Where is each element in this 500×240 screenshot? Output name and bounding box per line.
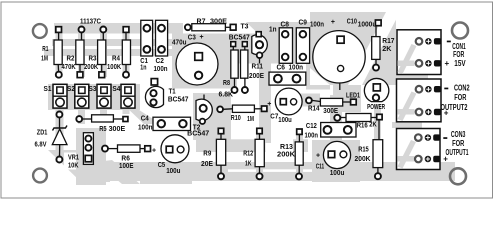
pad C7 plus (square) [280, 99, 286, 105]
terminal CON2 row1 [434, 86, 441, 92]
svg-text:100n: 100n [154, 66, 168, 73]
wire diag near C5 [96, 160, 140, 184]
svg-text:T3: T3 [241, 24, 249, 31]
pad C10 minus [338, 65, 344, 71]
white wedge left of C10 [310, 68, 330, 85]
wire zone left of C7 [259, 63, 271, 143]
pad R14 left [306, 98, 312, 104]
wire band R9-R12 [196, 139, 266, 152]
svg-text:S2: S2 [67, 86, 75, 93]
terminal CON1 row1 [434, 38, 441, 44]
capacitor C5 [161, 135, 189, 163]
svg-text:C8: C8 [281, 21, 290, 28]
svg-text:15V: 15V [454, 59, 466, 68]
resistor R13 [295, 134, 303, 173]
wire strip R1 column [56, 33, 63, 77]
wire strip below S1 [56, 108, 64, 162]
pad POWER anode (square) [373, 84, 380, 91]
white diagonal over C10 zone [348, 12, 400, 85]
resistor R8 [231, 47, 238, 88]
pad R16 right (square) [377, 114, 382, 119]
zener ZD1 [52, 117, 67, 157]
svg-text:C12: C12 [306, 123, 317, 130]
resistor R7 [191, 24, 231, 31]
resistor R15 [373, 120, 383, 174]
switch S4 [121, 84, 135, 108]
pad T3 pin2 [257, 52, 263, 58]
pad R6 right (square) [145, 146, 151, 152]
svg-text:100u: 100u [166, 168, 180, 175]
pad R3 bottom (square) [99, 72, 105, 78]
pad R17 bottom [373, 65, 379, 71]
label CON1 [447, 41, 451, 43]
pad ZD1 bottom [56, 157, 62, 163]
resistor R3 [98, 32, 106, 72]
terminal CON3 row2 [433, 156, 440, 162]
pad T3 top (square) [256, 32, 261, 37]
pad R11 bottom [242, 87, 248, 93]
pad R3 top [100, 27, 106, 33]
capacitor C8 [279, 28, 292, 64]
pad R8 top (square) [231, 42, 236, 47]
svg-text:+: + [152, 147, 156, 154]
wire zone C8 C9 T3 [237, 34, 330, 64]
pad C5 minus [177, 146, 184, 153]
pad C12 left [324, 126, 332, 134]
pad C6 right [293, 75, 301, 83]
connector CON2 box [397, 79, 442, 122]
wire strip R9 [218, 130, 225, 178]
capacitor C2 [156, 20, 168, 56]
pad CON1 row1 [416, 38, 423, 45]
wire zone below C5 [140, 163, 192, 184]
wire strip R2 column [78, 33, 85, 77]
capacitor C9 [296, 28, 309, 64]
wire gap above CON3 [392, 122, 422, 128]
svg-text:200K: 200K [84, 64, 98, 71]
pad CON1 row2 [416, 60, 423, 67]
capacitor C12 [321, 123, 356, 138]
resistor R4 [122, 32, 130, 72]
svg-text:+: + [200, 34, 204, 41]
wire zone T2 [193, 93, 231, 140]
svg-text:100n: 100n [310, 22, 324, 29]
pad R1 top (square) [56, 27, 62, 33]
capacitor C3 [176, 43, 218, 85]
switch S1 [53, 84, 67, 108]
wire strip R13 [296, 132, 303, 178]
svg-text:R12: R12 [243, 151, 253, 158]
svg-text:POWER: POWER [367, 104, 385, 111]
resistor R11 [241, 47, 248, 88]
pad R13 top (square) [297, 129, 302, 134]
mounting hole top-left [33, 24, 47, 38]
wire strip below S4 [123, 108, 130, 114]
svg-text:R11: R11 [252, 64, 264, 71]
pad R15 bottom [375, 173, 381, 179]
svg-text:200E: 200E [249, 73, 264, 80]
svg-text:6.8V: 6.8V [35, 142, 47, 149]
resistor R10 [223, 105, 262, 112]
svg-text:100K: 100K [107, 64, 121, 71]
svg-text:T1: T1 [169, 89, 176, 96]
svg-text:100n: 100n [289, 65, 304, 72]
svg-text:BC547: BC547 [229, 35, 250, 42]
mounting hole bottom-right [450, 168, 466, 184]
pad R13 bottom [296, 173, 302, 179]
svg-text:S1: S1 [44, 86, 52, 93]
screw CON3 row2 [425, 156, 431, 162]
capacitor C4 [153, 117, 191, 130]
resistor R16 [341, 114, 377, 122]
pad R5 left [76, 116, 82, 122]
preset VR1 [83, 133, 93, 165]
wire diagonal bottom-left [48, 150, 110, 182]
svg-text:+: + [443, 155, 448, 164]
svg-text:R13: R13 [280, 144, 293, 151]
screw CON2 row2 [425, 109, 431, 115]
transistor T1 [145, 86, 163, 107]
wire zone LED POWER [333, 82, 361, 112]
svg-text:C6: C6 [277, 65, 286, 72]
mounting hole top-right [452, 23, 468, 39]
svg-text:FOR: FOR [454, 93, 466, 102]
svg-text:R3: R3 [89, 56, 97, 63]
wire to R14 [300, 94, 320, 107]
capacitor C1 [141, 20, 153, 56]
svg-text:R17: R17 [382, 38, 394, 45]
transistor T3 [252, 35, 268, 64]
svg-text:FOR: FOR [452, 139, 464, 148]
resistor R9 [216, 134, 225, 174]
svg-text:1K: 1K [245, 160, 252, 167]
pad R9 top (square) [218, 128, 223, 133]
pad VR1 pin2 [85, 145, 91, 151]
svg-text:R2: R2 [67, 56, 75, 63]
svg-text:C9: C9 [299, 20, 308, 27]
svg-text:R7: R7 [197, 18, 206, 25]
pad R6 left [102, 146, 108, 152]
pad C7 minus [291, 99, 297, 105]
pad VR1 pin1 [85, 136, 91, 142]
wire strip R3 column [100, 33, 107, 77]
pad T1 pin2 [150, 99, 156, 105]
svg-text:CON3: CON3 [451, 130, 466, 139]
screw CON1 row1 [425, 38, 431, 44]
svg-text:R15: R15 [358, 146, 369, 153]
pad C3 minus [195, 72, 202, 79]
svg-text:300E: 300E [210, 18, 227, 25]
pad C9 top [300, 31, 307, 38]
pad ZD1 top [56, 112, 62, 118]
wire gap above CON2 [392, 74, 428, 80]
pad CON3 row2 [415, 156, 422, 163]
pad C11 plus (square) [328, 151, 335, 158]
svg-text:VR1: VR1 [68, 155, 79, 162]
pad R16 left [334, 115, 340, 121]
pad LED1 (square) [351, 99, 357, 105]
pad R8 bottom [232, 87, 238, 93]
wire band R13 [293, 139, 308, 152]
svg-text:10K: 10K [68, 163, 79, 170]
svg-text:S4: S4 [112, 86, 120, 93]
pad R10 right (square) [262, 106, 267, 111]
svg-text:300E: 300E [109, 126, 126, 133]
terminal CON2 row2 [434, 109, 441, 115]
svg-text:100n: 100n [138, 125, 153, 132]
pad CON3 row1 [415, 134, 422, 141]
switch S3 [97, 84, 111, 108]
pad C2 bottom [158, 46, 165, 53]
switch S2 [75, 84, 89, 108]
wire strip R4 column [123, 33, 130, 77]
pad C8 top [282, 31, 289, 38]
svg-text:+: + [445, 59, 450, 68]
screw CON3 row1 [425, 134, 431, 140]
svg-text:100u: 100u [278, 117, 292, 124]
pad R4 top (square) [123, 27, 129, 33]
resistor R5 [82, 115, 123, 122]
svg-text:R10: R10 [231, 115, 241, 122]
pad R4 bottom [123, 72, 129, 78]
svg-text:LED1: LED1 [346, 93, 360, 100]
pad C11 minus [340, 151, 347, 158]
svg-text:470K: 470K [62, 64, 76, 71]
svg-text:6.8K: 6.8K [219, 92, 234, 99]
svg-text:100n: 100n [305, 133, 319, 140]
pad T2 pin2 [200, 119, 205, 124]
svg-text:100E: 100E [119, 163, 134, 170]
svg-text:R4: R4 [112, 56, 120, 63]
pad R7 right (square) [230, 24, 236, 30]
pad C6 left [274, 75, 282, 83]
pad R9 bottom [218, 173, 224, 179]
svg-text:200K: 200K [355, 156, 371, 163]
pad C8 bottom [282, 54, 289, 61]
svg-text:1n: 1n [269, 26, 277, 33]
svg-text:C7: C7 [270, 113, 278, 120]
pad C4 left [158, 120, 165, 127]
svg-text:+: + [331, 19, 335, 26]
pad C10 plus (square) [337, 36, 344, 43]
resistor R1 [54, 32, 62, 72]
pad R2 bottom (square) [77, 72, 83, 78]
wire band R1-R4 lower [44, 49, 172, 56]
svg-text:300E: 300E [323, 108, 338, 115]
pad T2 pin1 [200, 105, 207, 112]
pad C1 bottom [144, 46, 151, 53]
wire top bus left [54, 23, 183, 34]
screw CON1 row2 [425, 60, 431, 66]
pad T3 pin1 [256, 41, 263, 48]
svg-text:R16: R16 [357, 123, 368, 130]
pad R2 top [79, 27, 85, 33]
pad C3 plus (square) [195, 53, 203, 61]
pad R17 top (square) [375, 20, 381, 26]
svg-text:2K: 2K [382, 46, 391, 53]
svg-text:BC547: BC547 [187, 131, 209, 138]
pad CON2 row1 [416, 86, 423, 93]
wire zone C11 [312, 140, 360, 182]
connector CON3 box [397, 129, 441, 170]
svg-text:C2: C2 [156, 58, 164, 65]
screw CON2 row1 [425, 86, 431, 92]
PLACEHOLDER-COMPONENTS [56, 20, 423, 179]
svg-text:1n: 1n [140, 65, 146, 72]
wire bottom bus [95, 162, 455, 181]
pad C4 right [179, 120, 186, 127]
svg-text:2K: 2K [369, 122, 377, 129]
svg-text:ZD1: ZD1 [37, 130, 48, 137]
pad POWER cathode [373, 95, 379, 101]
pad C9 bottom [300, 54, 307, 61]
resistor R2 [76, 32, 84, 72]
pad R12 top (square) [257, 128, 262, 133]
pad C12 right [344, 126, 352, 134]
wire zone right of C12 [330, 95, 342, 140]
svg-text:R8: R8 [223, 80, 230, 87]
resistor R17 [372, 27, 380, 65]
resistor R14 [312, 98, 351, 106]
svg-text:C3: C3 [188, 34, 196, 41]
resistor R6 [108, 145, 146, 152]
wire bus gap [228, 169, 313, 172]
svg-text:11137C: 11137C [80, 19, 101, 26]
svg-text:20E: 20E [201, 161, 213, 168]
svg-text:C10: C10 [347, 18, 357, 25]
pad R10 left [217, 106, 223, 112]
pad T1 pin1 [150, 90, 156, 96]
svg-text:CON2: CON2 [454, 83, 470, 92]
svg-text:R1: R1 [42, 46, 48, 53]
led POWER LED1 [364, 78, 388, 101]
pad R12 bottom [257, 173, 263, 179]
pad CON2 row2 [416, 109, 423, 116]
svg-text:1M: 1M [41, 56, 48, 63]
pad R1 bottom [56, 72, 62, 78]
pad VR1 pin3 (square) [85, 155, 91, 161]
capacitor C6 [269, 72, 306, 85]
svg-text:R14: R14 [308, 106, 320, 113]
label CON3 [443, 137, 447, 139]
svg-text:FOR: FOR [453, 50, 464, 59]
pad R5 right (square) [123, 117, 128, 122]
label CON2 [444, 88, 448, 90]
wire strip R15 [374, 104, 381, 180]
wire top bus right [246, 22, 360, 34]
terminal CON1 row2 [434, 60, 441, 66]
PLACEHOLDER-PADS [35, 18, 395, 177]
terminal CON3 row1 [433, 134, 440, 140]
svg-text:+: + [316, 152, 320, 159]
pad C2 top [158, 25, 165, 32]
wire band R1-R4 upper [52, 39, 180, 46]
svg-text:470u: 470u [172, 40, 187, 47]
svg-text:1M: 1M [247, 116, 254, 123]
svg-text:R5: R5 [99, 126, 106, 133]
transistor T2 [196, 95, 212, 121]
svg-text:R6: R6 [121, 156, 130, 163]
wire switch zone [48, 84, 140, 110]
wire strip below S3 [100, 110, 107, 118]
capacitor C11 [323, 141, 350, 168]
wire zone C10 R17 [310, 12, 396, 85]
capacitor C10 [313, 31, 365, 90]
svg-text:100u: 100u [330, 170, 345, 177]
wire zone around C3 [172, 34, 237, 89]
svg-text:OUTPUT1: OUTPUT1 [446, 148, 469, 157]
pad R11 top (square) [242, 42, 247, 47]
wire into CON2 [398, 92, 417, 122]
label patch VR1 [64, 153, 83, 170]
wire into CON3 [398, 140, 417, 169]
wire VR1 zone [76, 128, 106, 185]
mounting hole bottom-left [33, 169, 47, 183]
svg-text:C11: C11 [316, 164, 325, 171]
wire strip below S2 [78, 110, 85, 124]
wire strip R12 [256, 134, 263, 178]
pad C1 top [144, 25, 151, 32]
svg-text:BC547: BC547 [168, 96, 189, 103]
pad above T1 (square) [151, 79, 157, 85]
svg-text:+: + [267, 101, 271, 108]
svg-text:C5: C5 [158, 162, 166, 169]
pad C5 plus (square) [166, 146, 173, 153]
svg-text:200K: 200K [277, 151, 295, 158]
svg-text:R9: R9 [203, 151, 211, 158]
wire S4 to T1 [125, 106, 153, 124]
svg-text:S3: S3 [89, 86, 97, 93]
resistor R12 [255, 134, 264, 174]
connector CON1 box [397, 30, 441, 75]
svg-text:+: + [444, 108, 449, 117]
svg-text:C4: C4 [141, 115, 149, 122]
capacitor C7 [275, 88, 302, 115]
wire zone right of C6 [306, 64, 330, 90]
wire into CON1 [398, 44, 417, 74]
pad R7 left [185, 24, 191, 30]
svg-text:1000u: 1000u [358, 22, 377, 29]
